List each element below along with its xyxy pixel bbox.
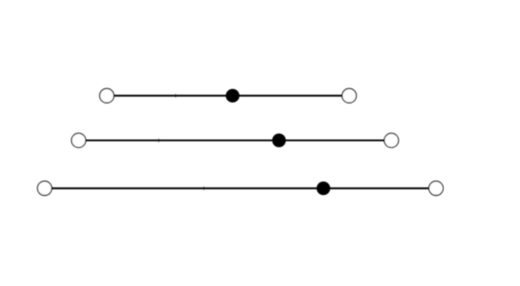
open endpoint B2 (right, segment 2) xyxy=(384,133,398,147)
open endpoint B1 (right, segment 1) xyxy=(342,89,356,103)
tick mark on segment 1 xyxy=(175,94,177,98)
wire segment 2 (middle rod) xyxy=(79,139,392,141)
node P1 (filled point on segment 1) xyxy=(226,89,240,103)
tick mark on segment 3 xyxy=(203,187,205,191)
node P2 (filled point on segment 2) xyxy=(272,134,286,148)
wire segment 3 (bottom rod) xyxy=(45,187,436,189)
tick mark on segment 2 xyxy=(158,139,160,143)
open endpoint A2 (left, segment 2) xyxy=(72,133,86,147)
node P3 (filled point on segment 3) xyxy=(317,181,331,195)
open endpoint A3 (left, segment 3) xyxy=(38,181,52,195)
open endpoint A1 (left, segment 1) xyxy=(100,89,114,103)
wire segment 1 (top rod) xyxy=(107,95,349,97)
open endpoint B3 (right, segment 3) xyxy=(429,181,443,195)
